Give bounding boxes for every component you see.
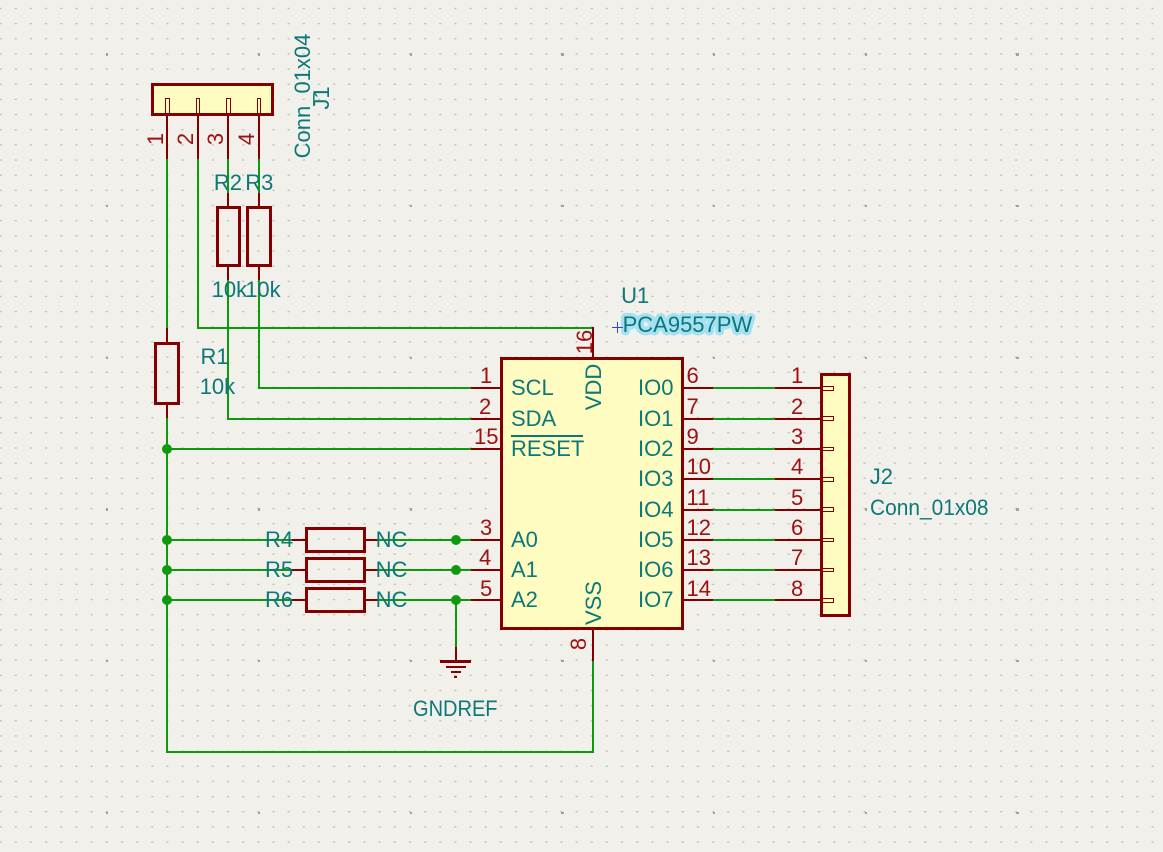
R6 right pin	[366, 599, 378, 601]
U1 pin 8 VSS stub	[592, 630, 594, 661]
wire IO2	[713, 448, 775, 450]
wire R1 down left bus	[166, 417, 168, 753]
U1 pin 11 IO4	[684, 509, 713, 511]
connector J1 body	[151, 83, 274, 117]
U1 pin number 5	[480, 578, 492, 600]
J1 pin 3 stub	[226, 98, 231, 116]
wire SCL horizontal	[258, 387, 471, 389]
resistor R2	[216, 206, 241, 267]
U1 pin number 3	[480, 517, 492, 539]
junction A0	[451, 535, 461, 545]
R6 left pin	[292, 599, 305, 601]
U1 pin name IO0	[638, 377, 673, 399]
wire R5 left	[166, 569, 291, 571]
R4 right pin	[366, 539, 378, 541]
U1 pin 1 SCL	[471, 387, 500, 389]
R2 value label	[212, 279, 247, 301]
J2 pin number 2	[791, 396, 803, 418]
R5 value label NC	[376, 559, 408, 581]
J2 pin 1	[775, 387, 819, 389]
junction at RESET	[162, 444, 172, 454]
J1 pin number 3	[205, 133, 227, 145]
J2 pin 5 stub	[822, 507, 834, 512]
J1 pin 3	[227, 116, 229, 158]
R5 right pin	[366, 569, 378, 571]
RESET overline	[511, 435, 583, 437]
R1 reference label	[201, 346, 229, 368]
J2 pin number 4	[791, 456, 803, 478]
R1 bottom pin	[166, 405, 168, 418]
R2 top pin	[227, 193, 229, 206]
U1 pin name A0	[511, 529, 538, 551]
J1 pin number 2	[175, 133, 197, 145]
R3 bottom pin	[258, 267, 260, 280]
U1 pin number 4	[479, 547, 491, 569]
wire IO1	[713, 418, 775, 420]
U1 pin name VDD	[583, 364, 605, 410]
U1 pin name VSS	[583, 581, 605, 625]
wire IO4	[713, 509, 775, 511]
U1 pin 10 IO3	[684, 478, 713, 480]
U1 pin number 14	[687, 578, 711, 600]
U1 pin name IO1	[638, 408, 673, 430]
U1 pin 12 IO5	[684, 539, 713, 541]
junction R6 left	[162, 595, 172, 605]
U1 pin name IO6	[638, 559, 673, 581]
J2 pin 5	[775, 509, 819, 511]
junction A1	[451, 565, 461, 575]
ground label GNDREF	[413, 698, 498, 720]
R2 bottom pin	[227, 267, 229, 280]
J1 pin number 4	[236, 133, 258, 145]
J2 pin 8 stub	[822, 598, 834, 603]
ground bar 1	[440, 660, 472, 662]
U1 pin 3 A0	[471, 539, 500, 541]
wire J1 pin4 to R3	[258, 159, 260, 194]
J2 pin 6 stub	[822, 538, 834, 543]
U1 pin name IO5	[638, 529, 673, 551]
J2 pin number 5	[791, 487, 803, 509]
J2 pin 2	[775, 418, 819, 420]
U1 reference label	[621, 285, 649, 307]
wire SDA horizontal	[227, 418, 471, 420]
U1 pin name A1	[511, 559, 538, 581]
R3 top pin	[258, 193, 260, 206]
J2 pin 7	[775, 569, 819, 571]
J2 reference label	[870, 466, 893, 488]
J2 pin 4	[775, 478, 819, 480]
R6 value label NC	[376, 589, 408, 611]
R4 reference label	[265, 529, 293, 551]
wire A2 to ground	[455, 600, 457, 647]
op-amp U1 body	[500, 357, 684, 631]
junction R5 left	[162, 565, 172, 575]
wire J1 pin2 down	[197, 159, 199, 329]
J2 pin number 6	[791, 517, 803, 539]
U1 pin 13 IO6	[684, 569, 713, 571]
U1 pin 6 IO0	[684, 387, 713, 389]
R4 value label NC	[376, 529, 408, 551]
U1 pin number 16	[574, 330, 596, 354]
wire VDD horizontal	[197, 327, 593, 329]
R5 left pin	[292, 569, 305, 571]
U1 pin number 12	[687, 517, 711, 539]
U1 pin number 11	[687, 487, 710, 509]
U1 pin number 6	[687, 365, 699, 387]
U1 value label PCA9557PW highlighted	[623, 314, 753, 336]
J2 pin 3 stub	[822, 447, 834, 452]
J1 pin number 1	[145, 133, 167, 145]
U1 pin name SDA	[511, 408, 556, 430]
J2 pin 4 stub	[822, 477, 834, 482]
J1 pin 4 stub	[257, 98, 262, 116]
wire bottom horizontal	[166, 751, 593, 753]
R4 left pin	[292, 539, 305, 541]
wire VSS vertical	[592, 661, 594, 754]
wire R2 down	[227, 279, 229, 420]
J2 pin number 8	[791, 578, 803, 600]
J1 pin 1 stub	[165, 98, 170, 116]
ground GNDREF stem pin	[455, 647, 457, 662]
wire RESET horizontal	[166, 448, 471, 450]
J1 pin 2 stub	[196, 98, 201, 116]
ground bar 3	[451, 671, 461, 673]
J2 value label Conn_01x08	[870, 497, 989, 519]
J2 pin number 1	[791, 365, 803, 387]
U1 pin 16 VDD stub	[592, 327, 594, 357]
wire IO7	[713, 599, 775, 601]
R1 value label	[200, 376, 235, 398]
U1 pin name IO3	[638, 468, 673, 490]
U1 pin name IO7	[638, 589, 673, 611]
wire R6 left	[166, 599, 291, 601]
U1 pin 7 IO1	[684, 418, 713, 420]
U1 pin number 15	[474, 426, 498, 448]
resistor R6	[305, 587, 366, 613]
U1 pin name SCL	[511, 377, 554, 399]
U1 pin name A2	[511, 589, 538, 611]
J2 pin 8	[775, 599, 819, 601]
U1 pin number 8	[568, 637, 590, 649]
U1 pin number 7	[687, 396, 699, 418]
wire R6 right to A2	[378, 599, 471, 601]
J2 pin 1 stub	[822, 386, 834, 391]
wire R3 down	[258, 279, 260, 389]
junction A2	[451, 595, 461, 605]
U1 pin number 13	[687, 547, 711, 569]
wire IO3	[713, 478, 775, 480]
J1 reference label	[311, 86, 333, 109]
U1 pin name RESET	[511, 438, 584, 460]
resistor R4	[305, 527, 366, 553]
R2 reference label	[214, 172, 242, 194]
wire R5 right to A1	[378, 569, 471, 571]
J2 pin 2 stub	[822, 416, 834, 421]
U1 pin number 1	[480, 365, 492, 387]
J2 pin 3	[775, 448, 819, 450]
U1 pin 15 RESET	[471, 448, 500, 450]
ground bar 2	[446, 666, 466, 668]
U1 pin number 10	[687, 456, 711, 478]
R3 reference label	[245, 172, 273, 194]
R1 top pin	[166, 328, 168, 342]
J2 pin 6	[775, 539, 819, 541]
wire IO5	[713, 539, 775, 541]
wire R4 left	[166, 539, 291, 541]
connector J2 body	[820, 373, 851, 617]
J1 pin 1	[166, 116, 168, 158]
R5 reference label	[265, 559, 293, 581]
resistor R3	[246, 206, 271, 267]
resistor R5	[305, 557, 366, 583]
J1 pin 4	[258, 116, 260, 158]
J2 pin 7 stub	[822, 568, 834, 573]
U1 pin name IO2	[638, 438, 673, 460]
R6 reference label	[265, 589, 293, 611]
wire J1 pin1 to R1	[166, 159, 168, 328]
J1 pin 2	[197, 116, 199, 158]
U1 pin number 9	[687, 426, 699, 448]
J1 value label Conn_01x04	[292, 34, 314, 159]
U1 pin 9 IO2	[684, 448, 713, 450]
ground bar 4	[454, 676, 457, 678]
U1 pin 14 IO7	[684, 599, 713, 601]
R3 value label	[245, 279, 280, 301]
selection anchor cross	[612, 327, 623, 329]
resistor R1	[154, 342, 180, 405]
wire J1 pin3 to R2	[227, 159, 229, 194]
J2 pin number 3	[791, 426, 803, 448]
wire IO6	[713, 569, 775, 571]
U1 pin number 2	[479, 396, 491, 418]
U1 pin name IO4	[638, 499, 673, 521]
U1 pin 4 A1	[471, 569, 500, 571]
wire R4 right to A0	[378, 539, 471, 541]
U1 pin 2 SDA	[471, 418, 500, 420]
U1 pin 5 A2	[471, 599, 500, 601]
junction R4 left	[162, 535, 172, 545]
wire IO0	[713, 387, 775, 389]
J2 pin number 7	[791, 547, 803, 569]
